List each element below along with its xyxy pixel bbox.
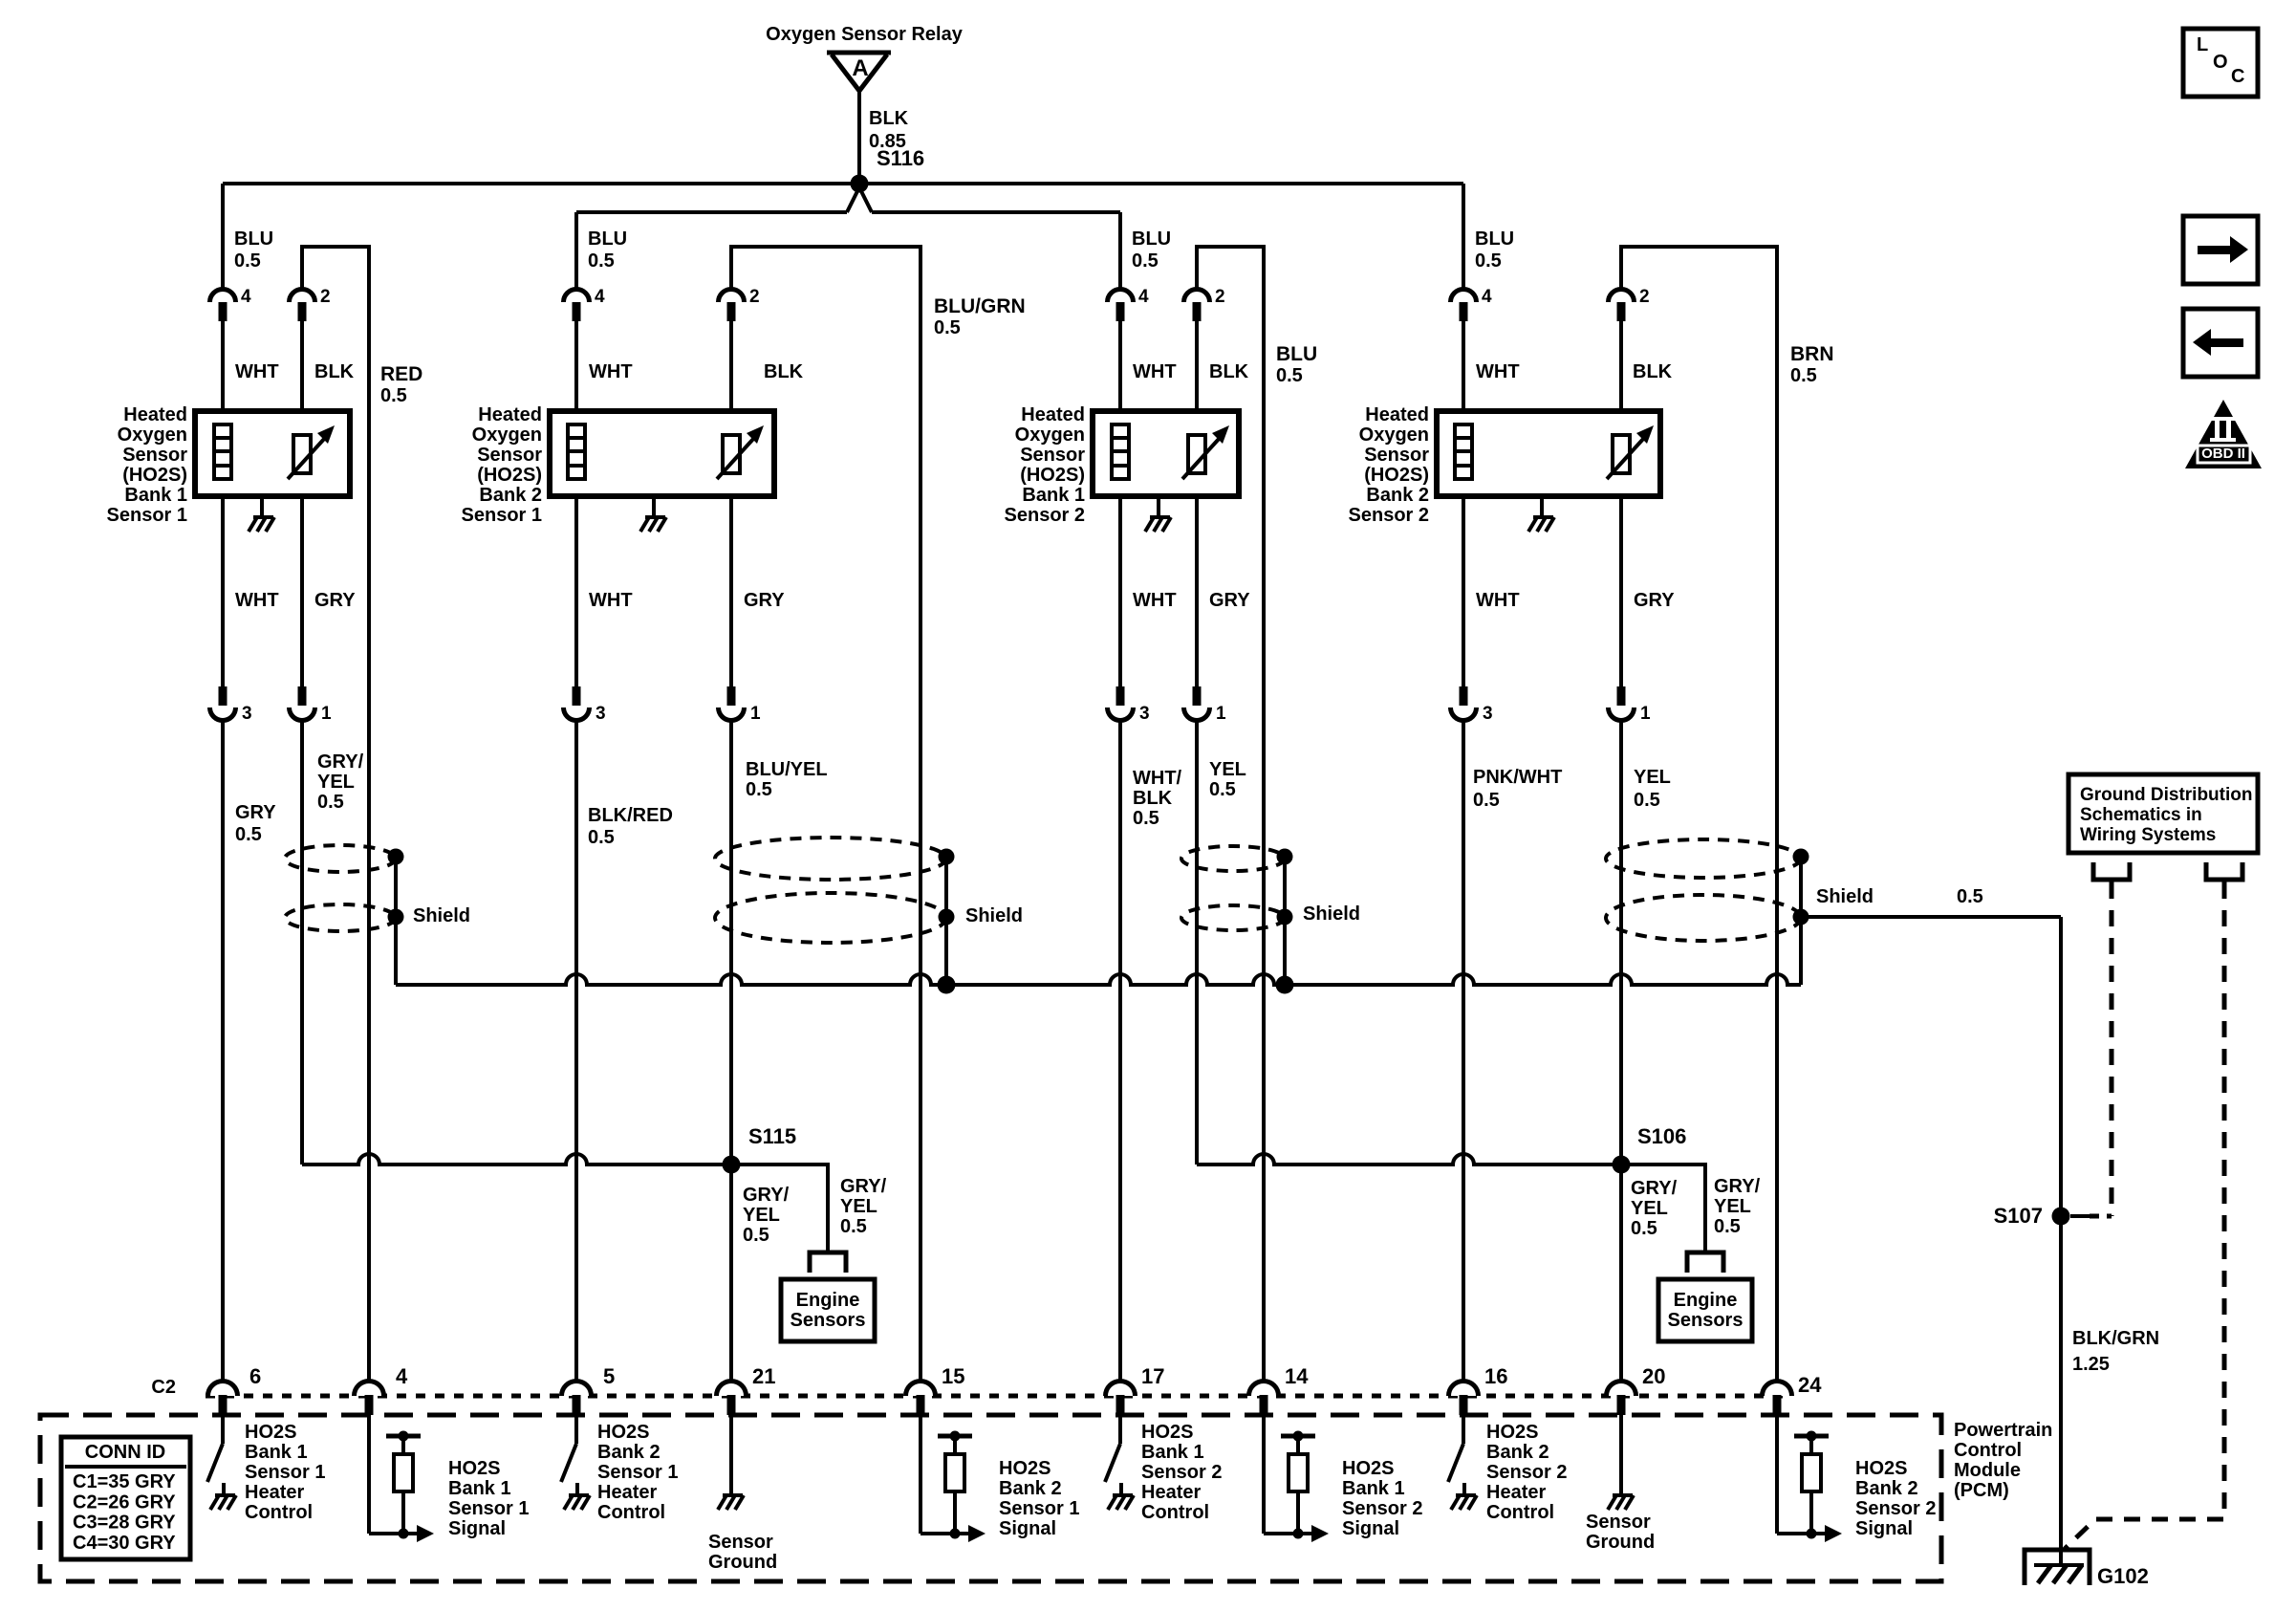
- svg-text:HO2S: HO2S: [597, 1422, 649, 1443]
- svg-text:WHT: WHT: [235, 361, 279, 382]
- svg-text:Ground: Ground: [1586, 1532, 1655, 1553]
- svg-text:BLK: BLK: [1633, 361, 1673, 382]
- svg-text:Wiring Systems: Wiring Systems: [2080, 825, 2216, 845]
- svg-text:Control: Control: [245, 1502, 313, 1523]
- svg-text:Bank 1: Bank 1: [1141, 1442, 1204, 1463]
- svg-text:BLU/GRN: BLU/GRN: [934, 295, 1026, 317]
- svg-text:S107: S107: [1994, 1204, 2043, 1228]
- svg-text:Ground: Ground: [708, 1552, 777, 1573]
- svg-text:C4=30 GRY: C4=30 GRY: [73, 1533, 176, 1554]
- svg-text:Sensor 2: Sensor 2: [1486, 1462, 1567, 1483]
- svg-text:Sensor: Sensor: [1364, 445, 1429, 466]
- svg-text:1: 1: [1216, 704, 1226, 724]
- svg-text:Sensors: Sensors: [791, 1310, 866, 1331]
- svg-text:Powertrain: Powertrain: [1954, 1420, 2052, 1441]
- svg-text:4: 4: [595, 287, 605, 307]
- svg-text:YEL: YEL: [743, 1205, 780, 1226]
- svg-text:Bank 2: Bank 2: [1366, 485, 1429, 506]
- svg-text:Heated: Heated: [1365, 404, 1429, 425]
- svg-text:3: 3: [596, 704, 606, 724]
- svg-text:Shield: Shield: [1816, 886, 1874, 907]
- svg-text:(HO2S): (HO2S): [1364, 465, 1429, 486]
- svg-text:0.5: 0.5: [1133, 808, 1159, 829]
- svg-text:Bank 1: Bank 1: [448, 1478, 511, 1499]
- svg-text:WHT: WHT: [1476, 361, 1520, 382]
- svg-text:Module: Module: [1954, 1460, 2021, 1481]
- svg-text:Sensor: Sensor: [1020, 445, 1085, 466]
- svg-text:PNK/WHT: PNK/WHT: [1473, 767, 1562, 788]
- svg-text:HO2S: HO2S: [1141, 1422, 1193, 1443]
- svg-text:HO2S: HO2S: [999, 1458, 1051, 1479]
- svg-text:Heated: Heated: [1021, 404, 1085, 425]
- svg-text:Shield: Shield: [1303, 903, 1360, 925]
- svg-text:(HO2S): (HO2S): [122, 465, 187, 486]
- svg-text:Sensor 2: Sensor 2: [1005, 505, 1085, 526]
- svg-text:0.5: 0.5: [1631, 1218, 1657, 1239]
- svg-text:GRY/: GRY/: [1714, 1176, 1761, 1197]
- svg-text:C: C: [2231, 66, 2244, 87]
- svg-text:2: 2: [320, 287, 331, 307]
- svg-text:WHT: WHT: [1133, 361, 1177, 382]
- svg-text:0.5: 0.5: [1790, 365, 1817, 386]
- svg-text:Bank 2: Bank 2: [597, 1442, 661, 1463]
- svg-text:BLK: BLK: [314, 361, 355, 382]
- svg-text:0.5: 0.5: [1209, 779, 1236, 800]
- svg-text:Control: Control: [1486, 1502, 1554, 1523]
- svg-text:C3=28 GRY: C3=28 GRY: [73, 1513, 176, 1534]
- svg-text:YEL: YEL: [840, 1196, 877, 1217]
- svg-text:S116: S116: [877, 146, 924, 170]
- svg-text:Signal: Signal: [999, 1518, 1056, 1539]
- svg-text:Signal: Signal: [448, 1518, 506, 1539]
- svg-text:HO2S: HO2S: [448, 1458, 500, 1479]
- svg-text:BLU/YEL: BLU/YEL: [746, 759, 828, 780]
- svg-text:Shield: Shield: [413, 905, 470, 926]
- svg-text:Heated: Heated: [123, 404, 187, 425]
- svg-text:BLK: BLK: [869, 108, 909, 129]
- svg-text:GRY: GRY: [235, 802, 276, 823]
- svg-text:0.5: 0.5: [1473, 790, 1500, 811]
- svg-text:Sensor 1: Sensor 1: [448, 1498, 529, 1519]
- svg-text:(HO2S): (HO2S): [1020, 465, 1085, 486]
- svg-text:BLU: BLU: [588, 229, 627, 250]
- svg-text:4: 4: [1138, 287, 1149, 307]
- svg-text:0.5: 0.5: [1957, 886, 1983, 907]
- svg-text:WHT/: WHT/: [1133, 768, 1182, 789]
- svg-text:GRY: GRY: [744, 590, 785, 611]
- svg-text:S106: S106: [1637, 1124, 1686, 1148]
- svg-text:Sensor 1: Sensor 1: [597, 1462, 678, 1483]
- svg-text:0.5: 0.5: [1132, 250, 1159, 272]
- svg-text:Sensor: Sensor: [708, 1532, 773, 1553]
- svg-text:Oxygen: Oxygen: [472, 425, 542, 446]
- svg-text:C1=35 GRY: C1=35 GRY: [73, 1471, 176, 1492]
- svg-text:1: 1: [1640, 704, 1651, 724]
- svg-text:GRY/: GRY/: [743, 1185, 790, 1206]
- svg-text:1: 1: [750, 704, 761, 724]
- svg-text:15: 15: [942, 1364, 964, 1388]
- svg-text:0.5: 0.5: [317, 792, 344, 813]
- svg-text:Sensor 1: Sensor 1: [107, 505, 187, 526]
- svg-text:Signal: Signal: [1855, 1518, 1913, 1539]
- svg-text:16: 16: [1484, 1364, 1507, 1388]
- svg-text:24: 24: [1798, 1373, 1822, 1397]
- svg-text:BLU: BLU: [1276, 343, 1317, 365]
- svg-text:3: 3: [1139, 704, 1150, 724]
- svg-text:Shield: Shield: [965, 905, 1023, 926]
- svg-text:Heater: Heater: [1141, 1482, 1201, 1503]
- svg-text:YEL: YEL: [1631, 1198, 1668, 1219]
- svg-text:(HO2S): (HO2S): [477, 465, 542, 486]
- svg-text:1: 1: [321, 704, 332, 724]
- svg-text:0.5: 0.5: [235, 824, 262, 845]
- svg-text:0.5: 0.5: [1714, 1216, 1741, 1237]
- svg-text:YEL: YEL: [317, 772, 355, 793]
- svg-text:2: 2: [749, 287, 760, 307]
- svg-text:O: O: [2213, 52, 2228, 73]
- svg-text:6: 6: [249, 1364, 261, 1388]
- svg-text:Heater: Heater: [1486, 1482, 1546, 1503]
- svg-text:Sensor: Sensor: [477, 445, 542, 466]
- svg-text:0.5: 0.5: [1276, 365, 1303, 386]
- svg-text:GRY: GRY: [314, 590, 356, 611]
- svg-text:0.5: 0.5: [380, 385, 407, 406]
- svg-text:Sensor 2: Sensor 2: [1855, 1498, 1936, 1519]
- svg-text:BLK/GRN: BLK/GRN: [2072, 1328, 2159, 1349]
- svg-text:0.5: 0.5: [588, 250, 615, 272]
- svg-text:Engine: Engine: [1674, 1290, 1738, 1311]
- svg-text:GRY: GRY: [1634, 590, 1675, 611]
- svg-text:2: 2: [1215, 287, 1225, 307]
- svg-text:0.5: 0.5: [840, 1216, 867, 1237]
- svg-text:HO2S: HO2S: [1855, 1458, 1907, 1479]
- svg-text:BLU: BLU: [1475, 229, 1514, 250]
- svg-text:GRY/: GRY/: [1631, 1178, 1678, 1199]
- svg-text:Sensor 2: Sensor 2: [1349, 505, 1429, 526]
- svg-text:WHT: WHT: [589, 590, 633, 611]
- svg-text:Bank 2: Bank 2: [1486, 1442, 1549, 1463]
- svg-text:HO2S: HO2S: [1342, 1458, 1394, 1479]
- svg-text:Heater: Heater: [597, 1482, 657, 1503]
- svg-text:Sensor: Sensor: [122, 445, 187, 466]
- svg-text:Control: Control: [1141, 1502, 1209, 1523]
- svg-text:0.5: 0.5: [234, 250, 261, 272]
- svg-text:Sensor 1: Sensor 1: [462, 505, 542, 526]
- svg-text:WHT: WHT: [1133, 590, 1177, 611]
- svg-text:A: A: [852, 55, 868, 81]
- svg-text:YEL: YEL: [1634, 767, 1671, 788]
- svg-text:BLK: BLK: [764, 361, 804, 382]
- svg-text:Sensor 2: Sensor 2: [1141, 1462, 1222, 1483]
- svg-text:C2: C2: [151, 1377, 176, 1398]
- svg-text:17: 17: [1141, 1364, 1164, 1388]
- svg-text:3: 3: [242, 704, 252, 724]
- svg-text:21: 21: [752, 1364, 775, 1388]
- svg-text:Sensor: Sensor: [1586, 1512, 1651, 1533]
- svg-text:WHT: WHT: [235, 590, 279, 611]
- svg-text:2: 2: [1639, 287, 1650, 307]
- svg-text:0.5: 0.5: [588, 827, 615, 848]
- svg-text:BRN: BRN: [1790, 343, 1834, 365]
- svg-text:0.5: 0.5: [1634, 790, 1660, 811]
- svg-text:C2=26 GRY: C2=26 GRY: [73, 1491, 176, 1513]
- svg-text:Oxygen Sensor Relay: Oxygen Sensor Relay: [766, 24, 964, 45]
- svg-text:HO2S: HO2S: [245, 1422, 296, 1443]
- svg-text:Control: Control: [597, 1502, 665, 1523]
- svg-text:Sensor 1: Sensor 1: [245, 1462, 325, 1483]
- svg-text:Bank 1: Bank 1: [1022, 485, 1085, 506]
- svg-text:3: 3: [1483, 704, 1493, 724]
- svg-text:HO2S: HO2S: [1486, 1422, 1538, 1443]
- svg-text:0.5: 0.5: [1475, 250, 1502, 272]
- svg-text:0.5: 0.5: [746, 779, 772, 800]
- svg-text:14: 14: [1285, 1364, 1309, 1388]
- svg-text:Ground Distribution: Ground Distribution: [2080, 785, 2252, 805]
- svg-text:Oxygen: Oxygen: [1359, 425, 1429, 446]
- svg-text:BLK/RED: BLK/RED: [588, 805, 673, 826]
- svg-text:Bank 1: Bank 1: [245, 1442, 308, 1463]
- svg-text:4: 4: [1482, 287, 1492, 307]
- svg-text:0.5: 0.5: [934, 317, 961, 338]
- svg-text:Bank 2: Bank 2: [479, 485, 542, 506]
- svg-text:YEL: YEL: [1209, 759, 1246, 780]
- svg-text:Schematics in: Schematics in: [2080, 805, 2202, 825]
- svg-text:BLU: BLU: [1132, 229, 1171, 250]
- svg-text:Oxygen: Oxygen: [118, 425, 187, 446]
- svg-text:WHT: WHT: [589, 361, 633, 382]
- svg-text:Control: Control: [1954, 1440, 2022, 1461]
- svg-text:4: 4: [241, 287, 251, 307]
- svg-text:BLU: BLU: [234, 229, 273, 250]
- svg-text:(PCM): (PCM): [1954, 1480, 2009, 1501]
- svg-text:CONN ID: CONN ID: [85, 1442, 165, 1463]
- svg-text:Signal: Signal: [1342, 1518, 1399, 1539]
- svg-text:GRY/: GRY/: [317, 751, 364, 773]
- svg-text:Bank 2: Bank 2: [1855, 1478, 1918, 1499]
- svg-text:BLK: BLK: [1209, 361, 1249, 382]
- svg-text:0.5: 0.5: [743, 1225, 769, 1246]
- svg-text:Sensors: Sensors: [1668, 1310, 1744, 1331]
- svg-text:Engine: Engine: [796, 1290, 860, 1311]
- svg-text:Bank 1: Bank 1: [1342, 1478, 1405, 1499]
- svg-text:Sensor 2: Sensor 2: [1342, 1498, 1422, 1519]
- svg-text:Bank 2: Bank 2: [999, 1478, 1062, 1499]
- svg-text:RED: RED: [380, 363, 422, 385]
- svg-text:L: L: [2197, 34, 2208, 55]
- svg-text:GRY: GRY: [1209, 590, 1250, 611]
- svg-text:YEL: YEL: [1714, 1196, 1751, 1217]
- svg-text:G102: G102: [2097, 1564, 2149, 1588]
- svg-text:GRY/: GRY/: [840, 1176, 887, 1197]
- svg-text:Heater: Heater: [245, 1482, 304, 1503]
- svg-text:20: 20: [1642, 1364, 1665, 1388]
- svg-text:OBD II: OBD II: [2201, 446, 2245, 462]
- svg-text:Heated: Heated: [478, 404, 542, 425]
- svg-text:Oxygen: Oxygen: [1015, 425, 1085, 446]
- svg-text:Bank 1: Bank 1: [124, 485, 187, 506]
- svg-text:5: 5: [603, 1364, 615, 1388]
- svg-text:WHT: WHT: [1476, 590, 1520, 611]
- svg-text:Sensor 1: Sensor 1: [999, 1498, 1079, 1519]
- svg-text:4: 4: [396, 1364, 408, 1388]
- svg-text:1.25: 1.25: [2072, 1354, 2110, 1375]
- svg-text:S115: S115: [748, 1124, 796, 1148]
- svg-text:BLK: BLK: [1133, 788, 1173, 809]
